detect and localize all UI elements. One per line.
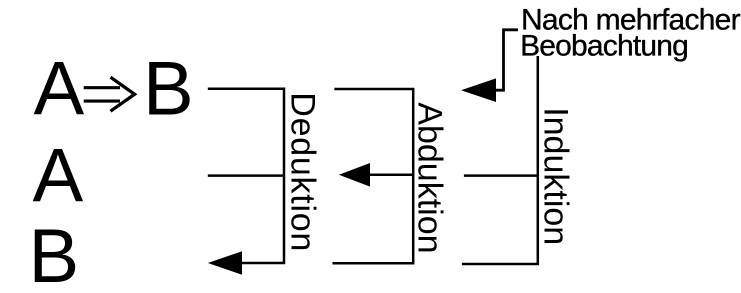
Abduktion bracket [333, 89, 414, 263]
svg-text:Deduktion: Deduktion [284, 92, 322, 251]
svg-text:Beobachtung: Beobachtung [520, 29, 689, 62]
Induktion bracket [462, 56, 538, 264]
elbow arrowhead [461, 78, 496, 102]
elbow arrow from annotation to Abduktion [496, 30, 518, 90]
svg-text:B: B [29, 214, 80, 293]
svg-text:A: A [34, 46, 85, 131]
Deduktion bracket [208, 89, 284, 263]
svg-text:A: A [33, 134, 84, 219]
Abduktion arrowhead [339, 163, 370, 187]
svg-text:B: B [143, 46, 194, 131]
svg-text:Induktion: Induktion [537, 107, 575, 245]
implication arrow (double arrow glyph drawn manually) [84, 77, 135, 111]
Deduktion arrowhead [208, 251, 242, 275]
svg-text:Abduktion: Abduktion [411, 102, 449, 253]
